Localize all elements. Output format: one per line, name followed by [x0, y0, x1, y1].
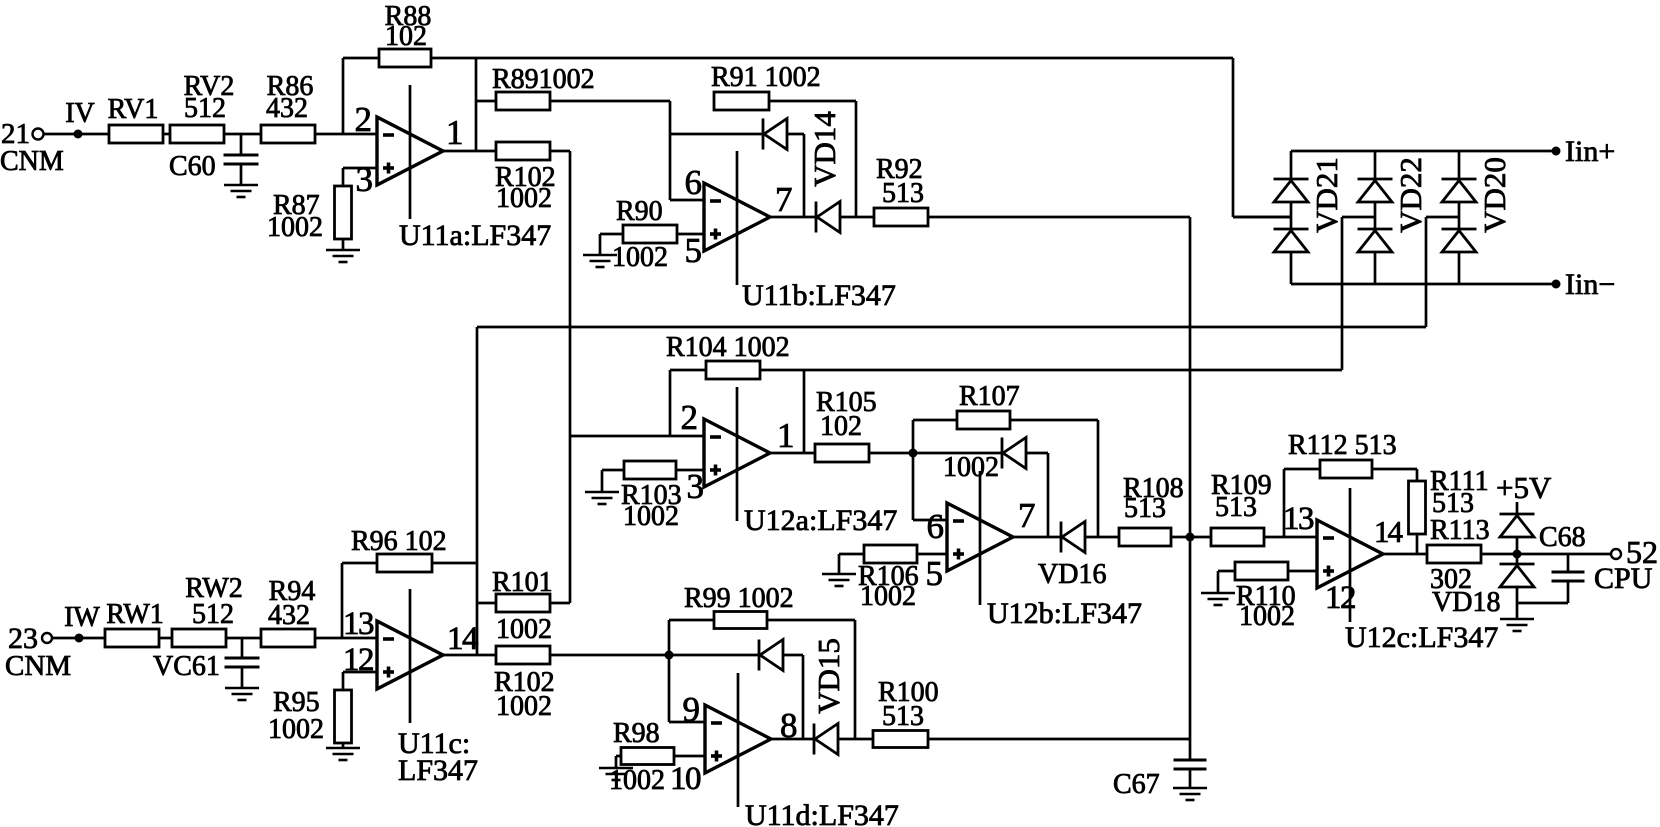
capacitor C68 [1517, 522, 1586, 603]
op-amp U11c [377, 589, 443, 723]
svg-text:1: 1 [446, 113, 464, 152]
resistor R95 1002 [268, 687, 352, 745]
resistor R105 102 [815, 387, 877, 462]
wire R90 to U11b pin5 [676, 233, 704, 236]
svg-text:R104 1002: R104 1002 [666, 332, 790, 363]
resistor R92 513 [874, 154, 928, 226]
wire R111 to output [1416, 534, 1419, 554]
diode VD18 [1432, 554, 1535, 619]
resistor R109 513 [1211, 470, 1272, 546]
resistor R101 1002 [477, 567, 553, 645]
wire node X vertical x1190 [1189, 217, 1192, 739]
diode VD14 upper [763, 119, 787, 150]
wire R112 to R111 [1372, 469, 1417, 481]
wire 21 to RV1 [44, 133, 109, 136]
resistor R102 1002 (lower) [494, 646, 555, 722]
capacitor C60 [169, 134, 259, 185]
svg-text:CPU: CPU [1594, 562, 1653, 595]
label +5V [1496, 470, 1552, 505]
wire VD22 mid to R104 bus [1342, 217, 1375, 370]
pin 1 label [777, 416, 795, 455]
wire diode to output drop [786, 134, 804, 217]
resistor R90 1002 [612, 196, 677, 273]
svg-text:VD21: VD21 [1309, 157, 1344, 233]
wire U12a pin2 row [570, 435, 704, 438]
ground R98 [599, 768, 633, 780]
wire R106 left to ground [839, 554, 864, 574]
capacitor VC61 [153, 638, 260, 688]
resistor R110 1002 [1235, 562, 1296, 632]
wire diode to R92 [840, 216, 874, 219]
svg-text:9: 9 [683, 690, 701, 729]
wire R104 bus to VD22 [760, 369, 1342, 372]
svg-text:C60: C60 [169, 151, 216, 182]
op-amp U12a [704, 387, 770, 521]
svg-text:513: 513 [1124, 493, 1166, 524]
wire diode to output drop [783, 655, 803, 739]
wire VD16 to R108 [1085, 536, 1119, 539]
wire R87 to ground [342, 239, 345, 250]
wire U11c output [443, 654, 496, 657]
resistor R106 1002 [858, 545, 919, 612]
ground C60 [224, 185, 258, 197]
pin 12 label [1325, 580, 1355, 616]
terminal 21 CNM [0, 118, 64, 177]
op-amp U12b [947, 471, 1013, 605]
wire R92 to node X [927, 216, 1190, 219]
resistor RV1 [108, 94, 163, 143]
wire R101 right to bus x570 [550, 602, 570, 605]
ground R106 [822, 574, 856, 586]
svg-text:R107: R107 [959, 381, 1020, 412]
resistor R102 1002 (upper) [495, 142, 556, 214]
wire R109 to U12c pin13 [1264, 536, 1317, 539]
svg-text:R112 513: R112 513 [1288, 430, 1397, 461]
resistor RW2 512 [172, 573, 243, 647]
label U11c:LF347 [398, 727, 478, 787]
wire top rail drop to VD21 [1233, 58, 1291, 217]
svg-text:1002: 1002 [1239, 601, 1295, 632]
resistor R94 432 [261, 576, 315, 647]
svg-text:512: 512 [192, 599, 234, 630]
resistor R99 1002 [669, 583, 794, 629]
wire U11a pin3 to R87 [343, 168, 377, 186]
svg-text:7: 7 [1018, 496, 1036, 535]
diode VD20 upper [1442, 151, 1477, 229]
wire R90 left to ground [600, 234, 623, 255]
wire R98 to pin10 [674, 755, 705, 758]
svg-text:10: 10 [670, 761, 701, 797]
svg-text:R98: R98 [613, 718, 660, 749]
svg-text:Iin−: Iin− [1565, 268, 1615, 301]
wire U12b output [1013, 536, 1061, 539]
wire node vertical to pin9 [669, 620, 705, 722]
wire RW2 to R94 node [225, 637, 261, 640]
wire R102 to U11d node [550, 654, 759, 657]
pin 6 label [685, 163, 703, 202]
wire R89 to U11b pin6 node [550, 100, 670, 103]
pin 7 label [775, 180, 793, 219]
wire diode feedback row [670, 133, 763, 136]
svg-text:102: 102 [385, 21, 427, 52]
wire U11c output bus y327 [477, 326, 1426, 329]
wire VD20 mid to U11c bus [1426, 217, 1459, 327]
svg-text:VD14: VD14 [807, 111, 842, 187]
ground R103 [585, 492, 619, 504]
node Iin- [1552, 268, 1616, 301]
svg-text:1002: 1002 [612, 242, 668, 273]
wire R106 to pin5 [917, 553, 947, 556]
svg-text:VD22: VD22 [1393, 157, 1428, 233]
resistor R111 513 [1409, 466, 1489, 534]
label U11a:LF347 [399, 219, 551, 252]
resistor R100 513 [873, 677, 939, 748]
pin 3 label [356, 160, 374, 199]
svg-text:13: 13 [1283, 501, 1314, 537]
svg-text:R101: R101 [492, 567, 553, 598]
svg-text:512: 512 [184, 93, 226, 124]
svg-text:513: 513 [882, 178, 924, 209]
wire U11b pin6 vertical [670, 101, 704, 200]
svg-text:VD20: VD20 [1477, 157, 1512, 233]
label U11b:LF347 [742, 279, 896, 312]
node Iin+ [1552, 135, 1616, 168]
svg-text:Iin+: Iin+ [1565, 135, 1615, 168]
svg-text:CNM: CNM [0, 146, 64, 177]
label U12b:LF347 [987, 597, 1142, 630]
resistor R108 513 [1119, 473, 1184, 546]
resistor R86 432 [261, 71, 315, 143]
svg-text:3: 3 [356, 160, 374, 199]
terminal 52 CPU [1594, 534, 1658, 595]
wire R104 right drop to output [803, 370, 806, 453]
svg-text:U12a:LF347: U12a:LF347 [744, 504, 897, 537]
wire R110 to pin12 [1288, 570, 1317, 573]
wire R108 to node X [1171, 536, 1211, 539]
pin 6 label [927, 507, 945, 546]
wire 23 to RW1 [52, 637, 105, 640]
svg-text:IW: IW [64, 602, 100, 633]
svg-text:513: 513 [882, 701, 924, 732]
svg-text:12: 12 [1325, 580, 1355, 616]
svg-text:C67: C67 [1113, 769, 1160, 800]
pin 9 label [683, 690, 701, 729]
op-amp U11b [704, 151, 770, 285]
capacitor C67 [1113, 739, 1207, 800]
svg-text:5: 5 [926, 554, 944, 593]
resistor R113 302 [1427, 515, 1490, 595]
svg-text:6: 6 [927, 507, 945, 546]
pin 2 label [681, 398, 699, 437]
pin 5 label [926, 554, 944, 593]
wire R112 left drop [1284, 469, 1320, 537]
svg-text:R96 102: R96 102 [351, 526, 447, 557]
wire U11b output [770, 216, 816, 219]
wire R113 to CPU terminal [1481, 553, 1611, 556]
ground R95 [326, 748, 360, 760]
pin 14 label [447, 621, 478, 657]
diode VD22 upper [1358, 151, 1393, 229]
diode clamp to +5V [1500, 502, 1535, 554]
svg-text:VD16: VD16 [1038, 559, 1106, 590]
resistor R104 1002 [666, 332, 790, 379]
svg-text:432: 432 [268, 600, 310, 631]
svg-text:IV: IV [65, 98, 95, 129]
node IW [64, 602, 100, 643]
svg-text:5: 5 [685, 231, 703, 270]
svg-text:R99 1002: R99 1002 [684, 583, 794, 614]
pin 12 label [343, 642, 373, 678]
svg-text:2: 2 [355, 100, 373, 139]
ground C67 [1173, 788, 1207, 800]
diode U12b feedback [1002, 438, 1048, 538]
svg-text:1002: 1002 [623, 501, 679, 532]
resistor R88 102 [379, 1, 431, 67]
wire R110 left to ground [1218, 571, 1235, 593]
diode VD22 lower [1358, 229, 1393, 284]
svg-text:1002: 1002 [860, 581, 916, 612]
svg-text:1002: 1002 [496, 691, 552, 722]
svg-text:R891002: R891002 [492, 64, 595, 95]
wire R94 to U11c pin13 [314, 637, 377, 640]
wire diode to R100 [838, 738, 873, 741]
ground VD18 [1500, 619, 1534, 631]
svg-text:432: 432 [266, 93, 308, 124]
svg-text:U11a:LF347: U11a:LF347 [399, 219, 551, 252]
node R105-R107 junction [909, 449, 918, 458]
pin 5 label [685, 231, 703, 270]
op-amp U11d [705, 673, 771, 807]
wire U11d output [771, 738, 814, 741]
resistor R87 1002 [267, 186, 352, 243]
diode VD21 lower [1274, 229, 1309, 284]
wire U11a feedback tap up [343, 58, 379, 134]
svg-text:U12c:LF347: U12c:LF347 [1345, 621, 1498, 654]
pin 7 label [1018, 496, 1036, 535]
svg-text:U11d:LF347: U11d:LF347 [745, 799, 899, 827]
ground R87 [326, 250, 360, 262]
svg-text:VD15: VD15 [811, 638, 846, 714]
wire RW1-RW2 [158, 637, 172, 640]
wire R99 right to output drop [767, 620, 855, 739]
svg-text:6: 6 [685, 163, 703, 202]
diode VD15 upper [759, 640, 783, 671]
label U11d:LF347 [745, 799, 899, 827]
resistor RV2 512 [170, 71, 234, 143]
wire R107 right drop to output [1010, 420, 1098, 537]
pin 1 label [446, 113, 464, 152]
svg-text:RW1: RW1 [106, 599, 164, 630]
wire R86 to U11a pin2 [314, 133, 377, 136]
svg-text:2: 2 [681, 398, 699, 437]
wire R98 left to ground [616, 756, 621, 768]
svg-text:U12b:LF347: U12b:LF347 [987, 597, 1142, 630]
wire VD21 mid stub [1233, 216, 1291, 219]
wire vertical bus x570 [569, 151, 572, 603]
resistor R103 1002 [621, 461, 682, 532]
diode VD20 lower [1442, 229, 1477, 284]
pin 14 label [1374, 514, 1404, 549]
wire U12c output [1383, 553, 1427, 556]
ground VC61 [225, 688, 259, 700]
pin 3 label [687, 467, 705, 506]
diode VD14 lower [816, 202, 840, 233]
svg-text:3: 3 [687, 467, 705, 506]
svg-text:R90: R90 [616, 196, 663, 227]
node X [1186, 533, 1195, 542]
op-amp U12c [1317, 488, 1383, 622]
wire RV2 to R86 node [223, 133, 261, 136]
svg-text:102: 102 [820, 411, 862, 442]
svg-text:14: 14 [447, 621, 478, 657]
wire R103 left to ground [602, 470, 624, 492]
wire R100 to node X [928, 738, 1190, 741]
svg-text:C68: C68 [1539, 522, 1586, 553]
diode VD15 lower [814, 724, 838, 755]
svg-text:1: 1 [777, 416, 795, 455]
svg-text:1002: 1002 [496, 183, 552, 214]
wire R89 stub [476, 100, 496, 103]
label VD14 [807, 111, 842, 187]
label U12c:LF347 [1345, 621, 1498, 654]
resistor R112 513 [1288, 430, 1397, 478]
svg-text:1002: 1002 [496, 614, 552, 645]
svg-text:513: 513 [1215, 492, 1257, 523]
resistor RW1 [105, 599, 164, 647]
pin 10 label [670, 761, 701, 797]
op-amp U11a [377, 85, 443, 219]
ground R110 [1201, 593, 1235, 605]
wire R103 to U12a pin3 [676, 469, 704, 472]
label VD20 [1477, 157, 1512, 233]
wire U11a output [443, 150, 496, 153]
wire R91 right to output drop [769, 101, 856, 217]
svg-text:14: 14 [1374, 514, 1404, 549]
svg-text:13: 13 [343, 606, 374, 642]
pin 13 label [343, 606, 374, 642]
wire RV1-RV2 [162, 133, 170, 136]
resistor R96 102 [351, 526, 447, 572]
resistor R91 1002 [711, 62, 821, 110]
wire U11c pin12 to R95 [343, 672, 377, 690]
resistor R107 1002 [913, 381, 1020, 483]
wire output junction drop x476 [475, 58, 478, 151]
label VD22 [1393, 157, 1428, 233]
wire U12a output [770, 452, 815, 455]
wire U11c output bus drop x477 [476, 327, 479, 655]
wire R95 to ground [342, 743, 345, 748]
svg-text:1002: 1002 [267, 212, 323, 243]
svg-text:1002: 1002 [943, 452, 999, 483]
svg-text:LF347: LF347 [398, 754, 478, 787]
wire R88 to VD21 top rail [431, 57, 1233, 60]
svg-text:R91 1002: R91 1002 [711, 62, 821, 93]
diode VD16 [1038, 522, 1106, 591]
svg-text:VD18: VD18 [1432, 587, 1500, 618]
svg-text:RV1: RV1 [108, 94, 159, 125]
wire junction vertical to pin6 [913, 420, 947, 520]
label U12a:LF347 [744, 504, 897, 537]
svg-text:R113: R113 [1430, 515, 1490, 546]
wire Iin+ rail [1291, 150, 1556, 153]
diode VD21 upper [1274, 151, 1309, 229]
resistor R89 1002 [492, 64, 595, 110]
label VD21 [1309, 157, 1344, 233]
ground R90 [583, 255, 617, 267]
terminal 23 CNM [5, 622, 71, 682]
resistor R98 1002 [609, 718, 674, 796]
svg-text:U11b:LF347: U11b:LF347 [742, 279, 896, 312]
wire R96 to output bus [432, 562, 477, 565]
svg-text:+5V: +5V [1496, 470, 1552, 505]
svg-text:VC61: VC61 [153, 651, 220, 682]
label VD15 [811, 638, 846, 714]
pin 13 label [1283, 501, 1314, 537]
wire U11c feedback tap up [342, 563, 377, 638]
wire Iin- rail [1291, 283, 1556, 286]
node clamp [1513, 550, 1522, 559]
node U11d input [665, 651, 674, 660]
wire R105 to U12b [869, 452, 1002, 455]
pin 2 label [355, 100, 373, 139]
svg-text:7: 7 [775, 180, 793, 219]
node IV [65, 98, 95, 139]
pin 8 label [780, 706, 798, 745]
svg-text:CNM: CNM [5, 650, 71, 682]
wire R104 left drop [670, 370, 706, 436]
svg-text:1002: 1002 [268, 714, 324, 745]
wire R102 to summing bus [550, 150, 570, 153]
